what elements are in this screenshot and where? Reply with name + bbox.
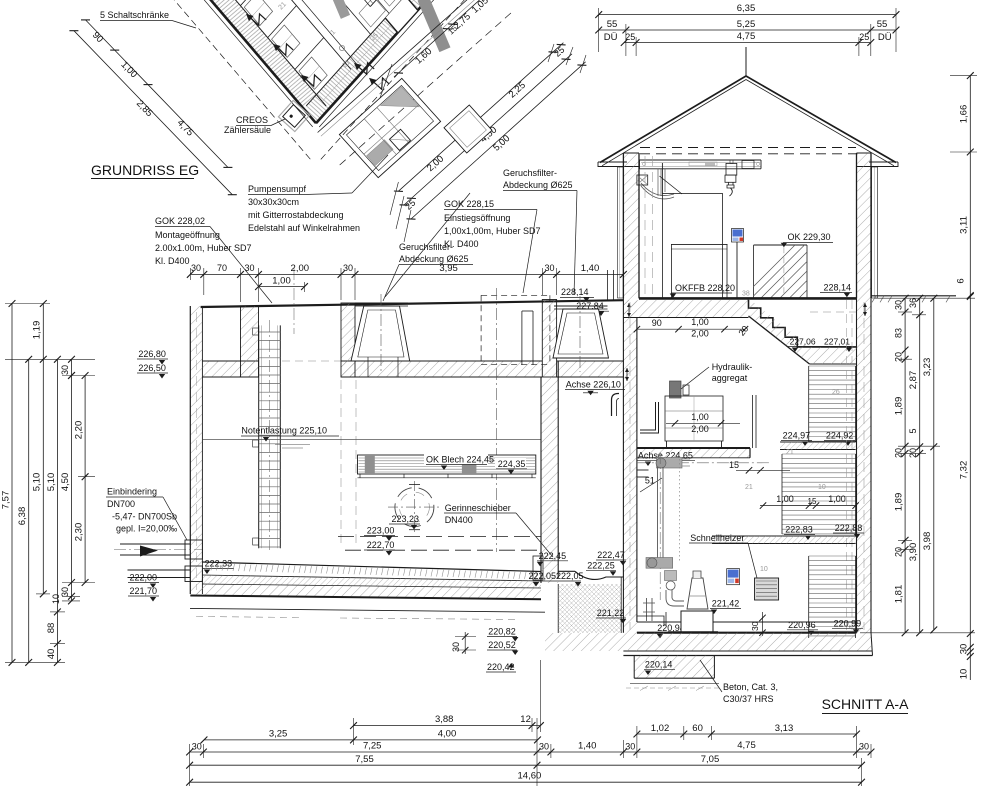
annex: walkway edge lines parallel to facade [318,0,483,133]
svg-text:1,19: 1,19 [32,321,43,340]
bottom row D 7,55/7,05 [190,764,862,766]
gate at wall [533,556,543,580]
ground line right of building [871,295,956,297]
aggregat frame tank [665,396,723,441]
svg-text:6,35: 6,35 [737,3,756,14]
svg-text:DN400: DN400 [445,515,473,525]
leader gok22815 [523,210,537,294]
annex: einstieg square [444,105,492,153]
tank top dim extensions [189,268,191,280]
svg-text:221,22: 221,22 [597,608,625,618]
plan dim chain 25/4,50 [404,54,572,205]
OK Blech label [424,454,488,465]
bottom row E 14,60 [190,781,862,783]
bottom extension verticals [189,744,191,786]
svg-text:30: 30 [859,742,869,752]
eave fascia left [598,161,627,163]
steel stair flight 1 (elevation lines) [809,365,856,367]
bottom slab pump area [637,633,871,651]
svg-text:DÜ: DÜ [604,32,618,43]
right chains horizontal extensions [875,297,975,299]
montage opening axis dash-dot [293,268,295,334]
mid landing 222,8x [712,535,856,537]
svg-text:1,00: 1,00 [828,494,846,504]
bottom row A 3,88/12 [354,725,541,727]
water level line (Notentlastung) [202,439,541,441]
right outer chain 1,66/3,11/6 [969,76,971,296]
svg-text:220,99: 220,99 [834,618,862,628]
CREOS Zaehlersaeule symbol [278,100,309,131]
svg-text:224,35: 224,35 [498,459,526,469]
einstieg dashed opening [481,294,550,296]
svg-text:1,00: 1,00 [691,317,709,327]
wall level marker arrow 2 [626,368,628,381]
svg-text:2,00: 2,00 [691,329,709,339]
pipe risers right [752,395,754,448]
pump vertical pipes [657,467,659,563]
svg-text:30: 30 [191,263,201,273]
terrain line over tank [201,300,624,307]
svg-text:Zählersäule: Zählersäule [224,125,271,135]
svg-text:30: 30 [539,742,549,752]
crane beam inner label box [689,162,717,166]
left chain 1,19/5,10 [42,304,44,594]
svg-text:Einstiegsöffnung: Einstiegsöffnung [444,213,510,223]
svg-text:7,57: 7,57 [1,491,12,510]
svg-text:DÜ: DÜ [878,32,892,43]
plan: plinth line right [319,0,456,127]
plan: corridor wall [218,0,351,70]
annex: pit gray triangle [381,87,420,126]
leader pumpensumpf [301,193,352,195]
svg-text:5: 5 [908,428,918,433]
dotted guide line [678,459,680,562]
ground floor slab line (thick) [639,297,857,300]
Gerinneschieber circle [395,488,434,527]
svg-text:25: 25 [625,32,635,42]
svg-text:GOK 228,15: GOK 228,15 [444,199,494,209]
plan: door opening in facade band [385,0,417,33]
pit footing below pump [634,656,714,679]
stair railing ground floor [754,244,807,246]
svg-text:SCHNITT A-A: SCHNITT A-A [822,696,910,712]
wall pipe stub [646,598,648,621]
steel stair flight 2 [782,453,856,455]
stair rail dashed verticals [846,300,848,630]
svg-text:223,00: 223,00 [367,526,395,536]
svg-text:226,80: 226,80 [138,349,166,359]
plan: section cut band A (gray) [418,0,451,52]
plan dim chain 1,60/15/2,75/1,05 [394,0,483,77]
fine hatch band [202,575,541,588]
tank ceiling slab pieces [202,361,258,377]
svg-text:228,14: 228,14 [824,283,852,293]
svg-text:222,00: 222,00 [130,573,158,583]
svg-text:10: 10 [760,566,768,573]
pipe elbow from wall [637,469,649,471]
svg-text:5 Schaltschränke: 5 Schaltschränke [100,10,169,20]
stair dims 1,00 15 1,00 [760,505,856,507]
lean concrete line [190,608,545,612]
roof apex vent line [745,47,747,76]
building left wall underground [623,298,637,632]
pipe elbow to pump [666,590,684,606]
landing 224,9x [780,441,856,443]
svg-text:30: 30 [544,263,554,273]
svg-text:10: 10 [51,594,61,604]
wall bracket + motor left [637,175,648,185]
svg-text:1,40: 1,40 [581,263,600,274]
plan: dashed roof overhang right [321,0,475,159]
annex: dashed boundary [340,12,512,165]
plan: outer wall edge right [316,0,462,123]
steel stair flight 3 [809,555,856,557]
svg-text:1,66: 1,66 [959,105,970,124]
svg-text:20: 20 [894,352,904,362]
svg-text:6: 6 [956,278,967,283]
svg-text:Abdeckung Ø625: Abdeckung Ø625 [503,180,573,190]
left chain 7,57 line [11,304,13,663]
svg-text:Geruchsfilter-: Geruchsfilter- [503,168,557,178]
left wall cladding strip [618,167,624,298]
blue box basement [727,569,740,585]
right chain x=919.7 [919,298,921,633]
interior vertical dashed guides [644,156,646,296]
bottom slab left part (under middle chamber) [545,633,637,651]
svg-text:40: 40 [46,649,57,660]
plan: partition wall 2 [268,6,297,38]
svg-text:2.00x1.00m, Huber SD7: 2.00x1.00m, Huber SD7 [155,243,252,253]
wall level marker arrow [628,303,630,317]
pump room floor [637,621,857,623]
OK Blech screen band [358,455,536,474]
30 small vertical dim [464,632,466,654]
roof right slope (double line) [746,76,896,163]
svg-text:30: 30 [894,300,904,310]
svg-text:Notentlastung 225,10: Notentlastung 225,10 [241,426,327,436]
plan: exterior wall band (left facade) [176,0,316,109]
svg-text:6,38: 6,38 [17,507,28,526]
svg-text:Einbindering: Einbindering [107,487,157,497]
svg-text:88: 88 [46,623,57,634]
svg-text:30: 30 [60,587,70,597]
eave fascia right [869,161,898,163]
svg-text:10: 10 [818,484,826,491]
crane runway beam [640,159,762,161]
geruchsfilter trapezoid right [553,309,609,358]
dashed level line 223,00 [338,535,541,537]
svg-text:Achse 226,10: Achse 226,10 [566,380,621,390]
left chain 2,20/2,30 [84,376,86,583]
plan: stair treads [351,0,373,4]
top dim extensions [598,8,600,52]
svg-text:Gerinneschieber: Gerinneschieber [445,503,511,513]
svg-text:38: 38 [742,291,750,298]
bottom row B 3,25/4,00 + right 1,02/60/3,13 [204,739,538,741]
svg-text:25: 25 [859,32,869,42]
svg-text:14,60: 14,60 [518,771,542,782]
svg-text:1,89: 1,89 [894,397,905,416]
svg-text:DN700: DN700 [107,499,135,509]
svg-text:1,00x1,00m, Huber SD7: 1,00x1,00m, Huber SD7 [444,226,541,236]
svg-text:20: 20 [908,448,918,458]
svg-text:gepl. I=20,00‰: gepl. I=20,00‰ [116,524,177,534]
plan: staircase band boundaries [370,0,452,7]
screen base line [358,477,536,479]
svg-text:83: 83 [894,328,904,338]
screed line [202,575,541,581]
top dim 55/5,25/55 [599,29,896,31]
annex: pit inner lines [364,119,396,155]
svg-text:220,82: 220,82 [488,627,516,637]
annex: pit gray bar [367,140,394,166]
flange cluster mid [646,558,673,569]
plan: inner wall line left [189,0,326,106]
svg-text:226,50: 226,50 [138,363,166,373]
roof left slope (double line) [600,76,746,163]
dims 1,00 2,00 lower [666,422,740,424]
svg-text:36: 36 [908,298,918,308]
svg-text:3,88: 3,88 [435,714,454,725]
plan: partition wall 3 [240,0,269,6]
slab hidden edge across opening [282,360,341,362]
svg-text:C30/37 HRS: C30/37 HRS [723,694,774,704]
right outer chain 7,32/30/10 [969,297,971,681]
svg-text:1,89: 1,89 [894,493,905,512]
svg-text:220,14: 220,14 [645,659,673,669]
plan: column circle [339,45,344,50]
building right wall underground [857,298,872,632]
svg-text:GOK 228,02: GOK 228,02 [155,216,205,226]
tank floor slab hatch [190,584,541,599]
svg-text:Kl. D400: Kl. D400 [155,256,190,266]
montage opening upstand walls [241,306,259,377]
svg-text:224,97: 224,97 [783,430,811,440]
svg-text:30: 30 [343,263,353,273]
tank ladder [258,325,260,548]
svg-text:20: 20 [894,547,904,557]
plan: hall inner lines [269,0,370,34]
svg-text:1,00: 1,00 [776,494,794,504]
svg-text:Geruchsfilter-: Geruchsfilter- [399,242,453,252]
svg-text:1,81: 1,81 [894,585,905,604]
plan: room fixtures [299,57,327,89]
stair hatch triangle [749,298,810,364]
svg-text:7,55: 7,55 [355,754,374,765]
svg-text:Edelstahl auf Winkelrahmen: Edelstahl auf Winkelrahmen [248,223,360,233]
control box on post (blue) [736,242,738,298]
top dim DU/25/4,75/25/DU [624,42,871,44]
crane hoist trolley [726,163,737,175]
svg-text:3,90: 3,90 [908,543,919,562]
tank left wall hatched [190,306,202,594]
plan: door arrows [299,68,321,90]
svg-text:3,25: 3,25 [269,729,288,740]
svg-text:222,88: 222,88 [835,523,863,533]
tank top dim chain [190,273,623,275]
svg-text:4,50: 4,50 [60,473,71,492]
svg-text:3,11: 3,11 [959,216,970,234]
concrete stair upper flight [749,298,810,347]
hoist hook [728,182,730,185]
middle chamber axis vent pipe [612,394,620,417]
svg-text:7,25: 7,25 [363,741,382,752]
svg-text:3,23: 3,23 [922,358,933,377]
svg-text:4,75: 4,75 [737,740,756,751]
right chain x=905 [904,298,906,633]
svg-text:20: 20 [894,448,904,458]
plan: partition wall 1 [295,38,324,70]
pump plinth [681,611,713,632]
svg-text:30x30x30cm: 30x30x30cm [248,197,299,207]
plan: dashed roof overhang left [158,0,311,159]
pipe wall sleeves [185,540,202,559]
pipe through einstieg area [521,311,523,365]
svg-text:30: 30 [451,642,461,652]
downpipe at wall [607,270,609,300]
svg-text:OK Blech 224,45: OK Blech 224,45 [426,455,494,465]
svg-text:223,23: 223,23 [392,514,420,524]
svg-text:CREOS: CREOS [236,115,268,125]
svg-text:222,47: 222,47 [597,550,625,560]
svg-text:222,05222,05: 222,05222,05 [528,571,583,581]
left chain 4,50/30/10 [71,376,73,601]
svg-text:70: 70 [217,263,227,273]
tank benching top line [202,562,541,572]
upstand at 542 [542,300,556,378]
svg-text:2,87: 2,87 [908,371,919,390]
annex: small sump square [389,129,410,150]
valve handwheel [666,581,675,590]
leader gok22802 [210,227,272,304]
svg-text:30: 30 [625,742,635,752]
right wall cladding strip [872,167,878,298]
svg-text:2,20: 2,20 [74,421,85,440]
svg-text:OK 229,30: OK 229,30 [788,232,831,242]
left chain 5,10b/88/40 [56,359,58,662]
plan: inner wall line right [306,0,447,106]
chain extension ticks [380,64,392,98]
svg-text:Schnellheizer: Schnellheizer [690,533,744,543]
svg-text:60: 60 [692,723,703,734]
hydraulik platform slab [637,449,750,458]
svg-text:222,83: 222,83 [785,525,813,535]
svg-text:1,02: 1,02 [651,723,670,734]
svg-text:221,70: 221,70 [130,586,158,596]
svg-text:5,10: 5,10 [46,473,57,492]
topleft dim line inner (90/1,00/4,75) [86,20,228,168]
svg-text:5,25: 5,25 [737,19,756,30]
svg-text:222,70: 222,70 [367,540,395,550]
svg-text:90: 90 [652,318,662,328]
svg-text:Montageöffnung: Montageöffnung [155,230,220,240]
svg-text:4,75: 4,75 [737,31,756,42]
svg-text:2,00: 2,00 [291,263,310,274]
middle chamber interior [558,570,623,572]
svg-text:221,42: 221,42 [712,599,740,609]
lean concrete dashes [630,683,719,685]
svg-text:15: 15 [729,460,739,470]
einstieg axis dash-dot [495,288,497,552]
topleft dim line outer (2,85) [74,31,232,195]
left chain 30 seg [71,359,73,375]
svg-text:222,45: 222,45 [539,551,567,561]
ladder axis dash-dot [269,320,271,550]
plan dim chain 5,00 [411,62,586,219]
svg-text:30: 30 [959,644,970,655]
middle chamber crosshatch fill [558,584,621,633]
railing at floor opening [671,243,728,245]
hydraulik aggregat motor (dark) [670,381,682,398]
inflow pipes left [120,543,190,545]
svg-text:mit Gitterrostabdeckung: mit Gitterrostabdeckung [248,210,344,220]
svg-text:222,25: 222,25 [587,560,615,570]
svg-text:30: 30 [192,742,202,752]
svg-text:-5,47- DN700Sb: -5,47- DN700Sb [112,512,177,522]
svg-text:21: 21 [786,449,794,456]
svg-text:21: 21 [745,484,753,491]
svg-text:aggregat: aggregat [712,373,748,383]
plan: section cut band B (gray) [330,0,350,19]
svg-text:Pumpensumpf: Pumpensumpf [248,184,307,194]
svg-text:4,00: 4,00 [438,729,457,740]
plan: hall partition [322,0,453,101]
svg-text:GRUNDRISS EG: GRUNDRISS EG [91,162,199,178]
hanging cables [657,169,659,196]
svg-text:15: 15 [808,497,817,506]
svg-text:5,10: 5,10 [32,473,43,492]
svg-text:Abdeckung Ø625: Abdeckung Ø625 [399,254,469,264]
stair dim 15 upper [736,469,790,471]
svg-text:30: 30 [244,263,254,273]
benching tick marks [206,563,208,570]
plan: plinth line left [173,0,313,127]
middle chamber floor channel [558,570,575,572]
ceiling dashed lines [640,147,856,149]
wall level marker arrow 3 [864,303,866,316]
svg-text:1,40: 1,40 [578,741,597,752]
svg-text:3,95: 3,95 [439,263,458,274]
dims 90 1,00 2,00 [637,328,745,330]
ground ticks right [872,296,876,303]
svg-text:7,32: 7,32 [959,461,970,480]
svg-text:55: 55 [607,19,618,30]
geruchsfilter trapezoid left [351,306,410,361]
ground hatch marks under slab [640,686,648,691]
left wall above ground (hatched) [623,153,639,298]
pump base block outline [665,612,667,626]
svg-text:OKFFB 228,20: OKFFB 228,20 [675,283,735,293]
pipe flange cluster top (Achse) [657,458,683,469]
plan: outer wall edge left [174,0,316,123]
right wall above ground (hatched) [857,153,872,298]
dashed level line 222,70 [345,549,541,551]
top dim 6,35 [599,14,896,16]
svg-text:1,00: 1,00 [691,412,709,422]
left chain 6,38 line [28,359,30,662]
svg-text:1,00: 1,00 [272,276,291,287]
svg-text:2,30: 2,30 [74,523,85,542]
door opening outline [662,193,722,299]
tank top dim 1,00 [259,286,305,288]
bottom row C 30/7,25/30/1,40/30/4,75/30 [190,751,871,753]
annex: entrance pit rectangle [339,78,440,177]
svg-text:3,13: 3,13 [775,723,794,734]
svg-text:224,92: 224,92 [826,430,854,440]
svg-text:Beton, Cat. 3,: Beton, Cat. 3, [723,682,778,692]
svg-text:7,05: 7,05 [701,754,720,765]
svg-text:228,14: 228,14 [561,287,589,297]
